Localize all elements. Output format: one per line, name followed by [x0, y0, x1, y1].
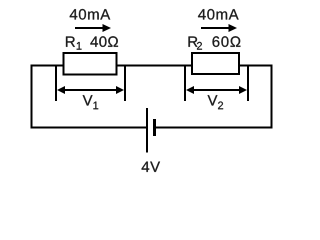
battery B1 long plate (positive) [146, 108, 148, 153]
V1 left tick [55, 65, 57, 101]
label 4V [142, 162, 160, 172]
V2 double arrow [186, 86, 247, 94]
wire bottom left (to battery) [31, 127, 148, 129]
V1 right tick [124, 65, 126, 101]
current label 40mA (right) [198, 9, 239, 20]
resistor R1 [64, 53, 117, 75]
V2 left tick [184, 65, 186, 101]
wire bottom right (from battery) [155, 127, 273, 129]
label R2 60ohm [189, 36, 241, 49]
resistor R2 [192, 53, 239, 74]
label V1 [83, 95, 99, 109]
current arrow (left) [75, 24, 111, 32]
wire right side [271, 65, 273, 129]
V1 double arrow [57, 86, 124, 94]
V2 right tick [247, 65, 249, 101]
label R1 40ohm [66, 36, 118, 49]
wire top (left loop corner to right loop corner) [31, 65, 273, 67]
label V2 [208, 95, 224, 109]
current arrow (right) [201, 24, 237, 32]
wire left side [31, 65, 33, 129]
battery B1 short plate (negative) [153, 119, 156, 136]
current label 40mA (left) [70, 9, 111, 20]
